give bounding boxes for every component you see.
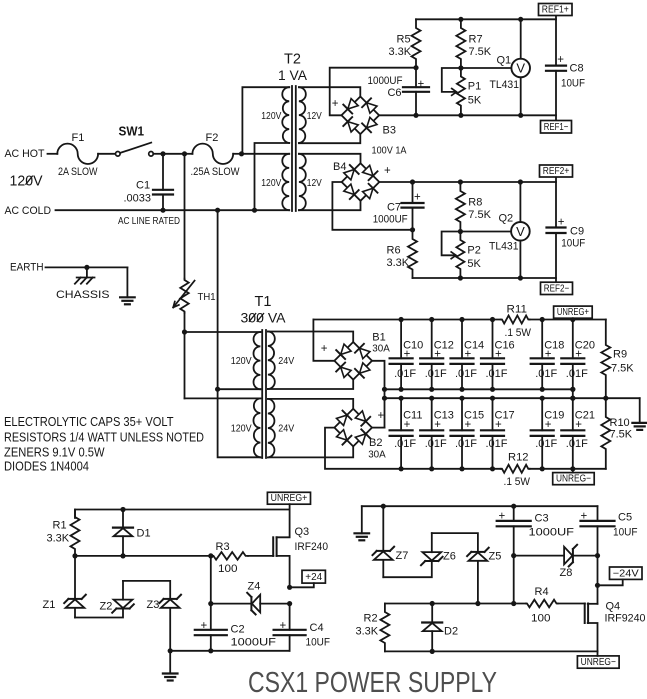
svg-text:UNREG−: UNREG−	[556, 474, 591, 485]
wire T1 upper secondary top to B1	[268, 332, 353, 342]
node junction Z5 bottom	[475, 601, 480, 606]
svg-text:+: +	[581, 510, 588, 522]
node junction C17 top	[490, 396, 495, 401]
wire B4 minus loop to C7 bottom	[332, 182, 412, 230]
node junction D1 top	[120, 507, 125, 512]
node junction C7 top	[410, 179, 415, 184]
svg-text:7.5K: 7.5K	[468, 209, 491, 221]
zener Z6	[425, 560, 438, 562]
svg-text:.01F: .01F	[455, 368, 477, 380]
chassis ground symbol	[86, 267, 88, 277]
svg-text:120V: 120V	[231, 355, 252, 367]
potentiometer P1	[457, 68, 465, 115]
bridge rectifier B3	[342, 97, 380, 135]
svg-text:120V: 120V	[261, 177, 281, 189]
wire B2 minus down to UNREG- rail	[325, 428, 501, 469]
svg-text:+: +	[434, 348, 441, 360]
node junction C21 top	[570, 396, 575, 401]
capacitor C19	[541, 398, 543, 430]
svg-text:Q4: Q4	[606, 601, 621, 613]
node junction R8 top	[458, 179, 463, 184]
svg-text:+: +	[384, 165, 391, 177]
svg-text:REF2−: REF2−	[544, 284, 570, 295]
node junction C10 top	[399, 317, 404, 322]
svg-text:.01F: .01F	[425, 438, 447, 450]
node junction cold on AC COLD	[215, 208, 220, 213]
capacitor C17	[492, 398, 494, 430]
transformer T2 core	[291, 86, 293, 211]
svg-text:P2: P2	[467, 244, 480, 256]
svg-text:+: +	[434, 419, 441, 431]
svg-text:5K: 5K	[468, 95, 482, 107]
svg-text:+: +	[465, 419, 472, 431]
wire T2 lower secondary bottom to B4	[299, 201, 361, 210]
node junction C12 top	[429, 317, 434, 322]
svg-text:.01F: .01F	[535, 368, 557, 380]
node junction C2 bottom	[208, 648, 213, 653]
fuse F2	[185, 153, 193, 155]
transformer T1 core	[261, 330, 263, 458]
wire B1 minus down to 0V rails	[372, 361, 385, 428]
wire B4 plus to REF2 top rail	[379, 181, 556, 183]
svg-text:R11: R11	[507, 304, 528, 316]
capacitor C5	[597, 506, 599, 521]
svg-text:+: +	[404, 348, 411, 360]
svg-text:R7: R7	[469, 34, 483, 46]
node junction R1/Z1/rail	[72, 553, 77, 558]
wire R4 to Q4 gate	[558, 603, 585, 605]
wire T1 lower secondary top to B2	[268, 399, 353, 408]
node junction Z4 right	[287, 601, 292, 606]
svg-text:CHASSIS: CHASSIS	[56, 289, 110, 301]
svg-text:C1: C1	[136, 179, 150, 191]
svg-text:3.3K: 3.3K	[47, 533, 70, 545]
svg-text:+: +	[418, 78, 425, 90]
svg-text:+: +	[557, 54, 564, 66]
wire Z4 branch	[210, 556, 212, 604]
earth ground symbol	[126, 267, 128, 297]
wire 0V lower mid rail	[385, 397, 640, 399]
fuse F1	[57, 144, 98, 164]
wire Z2 anode to Z3 cathode	[123, 581, 170, 599]
svg-text:R5: R5	[397, 34, 411, 46]
svg-text:−24V: −24V	[613, 568, 639, 579]
node junction -24V tap	[595, 583, 600, 588]
svg-text:30A: 30A	[372, 344, 390, 355]
svg-text:100: 100	[218, 563, 238, 575]
wire REF2 bottom rail	[413, 277, 557, 279]
svg-text:C9: C9	[570, 225, 584, 237]
svg-text:Z1: Z1	[43, 599, 56, 611]
svg-text:REF1+: REF1+	[542, 5, 569, 16]
zener Z3	[164, 598, 177, 600]
node junction C15 bottom	[459, 466, 464, 471]
transformer T1 primary lower 120V winding	[253, 398, 260, 457]
wire Z1 anode to Z2 cathode	[75, 609, 123, 618]
svg-text:IRF9240: IRF9240	[605, 612, 646, 624]
zener Z5	[471, 551, 484, 553]
node junction Q2 cathode	[518, 179, 523, 184]
svg-text:.1 5W: .1 5W	[505, 327, 532, 339]
node junction TH1/T1 upper primary	[182, 329, 187, 334]
svg-text:12V: 12V	[307, 110, 322, 122]
svg-text:R12: R12	[508, 452, 529, 464]
node junction Z8 left	[511, 553, 516, 558]
svg-text:UNREG+: UNREG+	[557, 307, 589, 318]
node junction D2 top	[430, 601, 435, 606]
svg-text:10UF: 10UF	[561, 77, 585, 89]
resistor R10	[601, 398, 610, 469]
capacitor C3	[513, 506, 515, 521]
svg-text:TL431: TL431	[490, 79, 520, 91]
svg-text:.1 5W: .1 5W	[504, 476, 531, 488]
wire T1 upper primary top	[185, 331, 261, 333]
node UNREG- box bottom-right	[577, 656, 619, 668]
node junction C14 top	[459, 317, 464, 322]
svg-text:AC COLD: AC COLD	[5, 205, 52, 217]
node junction T1 upper primary bottom	[215, 387, 220, 392]
transistor Q4 IRF9240	[584, 604, 586, 624]
svg-text:7.5K: 7.5K	[610, 429, 633, 441]
svg-text:+: +	[545, 419, 552, 431]
svg-text:Q2: Q2	[499, 213, 514, 225]
svg-text:120V: 120V	[231, 423, 252, 435]
svg-text:+: +	[201, 620, 208, 632]
svg-text:R2: R2	[364, 612, 378, 624]
svg-text:C5: C5	[618, 512, 632, 524]
svg-text:C8: C8	[570, 63, 584, 75]
svg-text:+: +	[280, 620, 287, 632]
svg-text:C2: C2	[231, 624, 245, 636]
wire C3 down to R4 line	[513, 556, 515, 604]
svg-text:3.3K: 3.3K	[387, 257, 410, 269]
svg-text:P1: P1	[468, 81, 481, 93]
node junction 0V rail left upper	[382, 387, 387, 392]
wire UNREG- bottom rail right segment	[530, 468, 606, 470]
node junction Z4 left	[208, 601, 213, 606]
capacitor C16	[492, 320, 494, 359]
svg-text:+: +	[495, 419, 502, 431]
node junction C15 top	[459, 396, 464, 401]
node junction Q1 cathode	[518, 17, 523, 22]
svg-text:R3: R3	[216, 541, 230, 553]
capacitor C21	[572, 398, 574, 430]
transformer T2 secondary upper 12V winding	[299, 87, 306, 143]
svg-text:TH1: TH1	[198, 291, 216, 303]
wire B1 plus up to UNREG+ rail	[313, 320, 334, 361]
zener Z4	[211, 603, 252, 605]
wire B2 plus to 0V rail	[372, 427, 385, 429]
svg-text:R9: R9	[613, 349, 627, 361]
node REF2+ box	[540, 165, 573, 177]
wire top rail of +24 regulator	[75, 510, 290, 519]
shunt regulator IC Q2 TL431	[511, 222, 530, 241]
svg-text:C4: C4	[310, 622, 324, 634]
svg-text:+: +	[558, 217, 565, 229]
resistor R8	[456, 182, 465, 232]
svg-text:.01F: .01F	[394, 438, 416, 450]
svg-text:120V: 120V	[10, 174, 43, 190]
resistor R2	[380, 604, 389, 652]
thermistor TH1	[180, 279, 188, 313]
node junction C3 branch bottom	[511, 601, 516, 606]
svg-text:REF1−: REF1−	[544, 122, 569, 133]
capacitor C18	[541, 320, 543, 359]
wire T2 upper secondary top to B3	[299, 87, 360, 96]
svg-text:R10: R10	[610, 417, 630, 429]
svg-text:T2: T2	[284, 52, 301, 68]
svg-text:.0033: .0033	[124, 192, 152, 204]
svg-text:EARTH: EARTH	[10, 262, 44, 274]
svg-text:+: +	[404, 419, 411, 431]
svg-text:UNREG−: UNREG−	[581, 657, 616, 668]
svg-text:DIODES 1N4004: DIODES 1N4004	[4, 460, 89, 474]
svg-text:AC LINE RATED: AC LINE RATED	[118, 216, 180, 227]
node junction D2 bottom	[430, 649, 435, 654]
node REF2- box	[541, 282, 573, 294]
node junction C19 bottom	[540, 466, 545, 471]
svg-text:120V: 120V	[261, 110, 281, 122]
svg-text:30A: 30A	[368, 449, 386, 460]
svg-text:1000UF: 1000UF	[373, 214, 408, 226]
svg-text:REF2+: REF2+	[543, 166, 570, 177]
wire ref pin to TL431 Q1	[461, 67, 512, 69]
wire T1 upper secondary bottom to B1	[268, 380, 353, 389]
wire earth	[46, 266, 128, 268]
transformer T2 secondary lower 12V winding	[299, 154, 306, 210]
svg-text:3.3K: 3.3K	[389, 46, 412, 58]
svg-text:+: +	[545, 348, 552, 360]
node junction +24 tap	[287, 585, 292, 590]
node junction C17 bottom	[490, 466, 495, 471]
svg-text:B4: B4	[333, 161, 346, 173]
wire T1 lower primary top	[185, 397, 261, 399]
svg-text:IRF240: IRF240	[295, 541, 329, 553]
wire top rail of -24 regulator	[362, 505, 598, 507]
zener Z8	[514, 555, 565, 557]
svg-text:.25A SLOW: .25A SLOW	[191, 166, 241, 178]
node junction Q1 anode	[518, 113, 523, 118]
svg-text:24V: 24V	[278, 355, 294, 367]
svg-text:Q3: Q3	[295, 526, 310, 538]
capacitor C10	[400, 320, 402, 359]
svg-text:1 VA: 1 VA	[278, 67, 308, 83]
svg-text:V: V	[516, 224, 525, 239]
node +24 output box	[302, 570, 325, 583]
svg-text:1000UF: 1000UF	[529, 526, 575, 538]
zener Z2	[116, 608, 129, 610]
resistor R7	[456, 19, 465, 68]
transformer T2 primary upper 120V winding	[282, 87, 289, 143]
wire AC HOT lead	[48, 153, 58, 155]
node junction C14 bottom	[459, 387, 464, 392]
node junction R7/P1/wiper	[458, 65, 463, 70]
node junction C13 top	[429, 396, 434, 401]
node junction SW1/C1	[160, 151, 165, 156]
svg-text:.01F: .01F	[566, 368, 588, 380]
ground bottom-right top	[361, 506, 363, 533]
capacitor C9	[555, 177, 557, 228]
svg-text:10UF: 10UF	[613, 526, 638, 538]
svg-text:100V 1A: 100V 1A	[372, 145, 407, 156]
wire UNREG+ feed	[289, 504, 291, 509]
transformer T1 secondary lower 24V winding	[268, 399, 275, 458]
wire -24V tap	[598, 579, 623, 585]
node junction 0V rail link bottom	[570, 396, 575, 401]
node junction ground tap	[168, 648, 173, 653]
svg-text:.01F: .01F	[486, 368, 508, 380]
node junction TH1 branch	[182, 151, 187, 156]
svg-text:10UF: 10UF	[306, 636, 331, 648]
svg-text:D2: D2	[444, 626, 458, 638]
node REF1+ box	[539, 4, 573, 16]
wire +24 tap	[290, 583, 314, 587]
transformer T1 primary upper 120V winding	[254, 332, 261, 389]
wire T1 lower secondary bottom to B2	[268, 446, 353, 457]
node junction C6 bottom	[413, 113, 418, 118]
resistor R4	[526, 600, 558, 608]
wire R4 line left segment	[385, 603, 526, 605]
wire regulator ground rail	[170, 650, 289, 652]
svg-text:ZENERS 9.1V 0.5W: ZENERS 9.1V 0.5W	[4, 446, 105, 460]
node junction chassis tap	[84, 265, 89, 270]
svg-text:R6: R6	[387, 245, 401, 257]
node junction C1 bottom on AC COLD	[160, 208, 165, 213]
resistor R3	[211, 552, 248, 560]
wire ref pin to TL431 Q2	[460, 231, 511, 233]
node junction F2 output	[239, 151, 244, 156]
svg-text:SW1: SW1	[119, 124, 145, 139]
node junction C11 bottom	[399, 466, 404, 471]
wire T2 upper secondary bottom to B3	[299, 134, 360, 143]
svg-text:C3: C3	[535, 513, 549, 525]
node junction R3 left / Z4 branch	[208, 553, 213, 558]
resistor R11	[501, 316, 530, 324]
wire hot feed down through TH1	[184, 154, 186, 279]
svg-text:AC HOT: AC HOT	[5, 148, 45, 160]
node junction R7 top	[458, 17, 463, 22]
zener Z1	[74, 556, 76, 599]
node junction C7 bottom / B4 minus	[410, 227, 415, 232]
node junction P1 bottom	[458, 113, 463, 118]
node junction C20 bottom	[570, 387, 575, 392]
svg-text:+: +	[378, 410, 385, 422]
svg-text:.01F: .01F	[425, 368, 447, 380]
svg-text:+: +	[575, 348, 582, 360]
bridge rectifier B1	[334, 342, 372, 380]
node junction 0V rail link top	[570, 387, 575, 392]
svg-text:C7: C7	[387, 201, 401, 213]
svg-text:.01F: .01F	[535, 438, 557, 450]
wire TH1 to T1 primaries	[184, 313, 186, 332]
wire UNREG+ top rail left segment	[313, 319, 500, 321]
node junction C16 bottom	[490, 387, 495, 392]
transformer T2 primary lower 120V winding	[282, 154, 289, 210]
svg-text:B3: B3	[383, 125, 396, 137]
wire Z7 anode to Z6 cathode	[383, 561, 432, 577]
capacitor C7	[412, 182, 414, 203]
svg-text:CSX1 POWER SUPPLY: CSX1 POWER SUPPLY	[248, 667, 497, 699]
svg-text:B1: B1	[372, 332, 385, 344]
wire gate bias rail	[75, 555, 213, 557]
svg-text:V: V	[516, 61, 525, 76]
ground mid-right	[639, 398, 641, 423]
diode D1	[122, 510, 124, 528]
node junction C12 bottom	[429, 387, 434, 392]
resistor R6	[408, 230, 417, 278]
resistor R9	[601, 320, 610, 399]
wire C1 node to TH1 node	[163, 153, 185, 155]
svg-text:24V: 24V	[278, 423, 294, 435]
resistor R1	[71, 510, 80, 556]
capacitor C11	[400, 398, 402, 430]
node junction P2 bottom	[458, 275, 463, 280]
wire B3 plus output	[330, 68, 416, 116]
svg-text:3.3K: 3.3K	[356, 626, 379, 638]
svg-text:Z7: Z7	[396, 550, 409, 562]
svg-text:.01F: .01F	[566, 438, 588, 450]
node -24V output box	[610, 567, 643, 579]
svg-text:R8: R8	[468, 197, 482, 209]
svg-text:Z6: Z6	[443, 551, 456, 563]
wire B3 minus to REF1 bottom rail	[379, 114, 556, 116]
svg-text:7.5K: 7.5K	[611, 362, 634, 374]
svg-text:.01F: .01F	[455, 438, 477, 450]
svg-text:C6: C6	[387, 87, 401, 99]
svg-text:R1: R1	[53, 520, 67, 532]
svg-text:10UF: 10UF	[561, 237, 585, 249]
svg-text:Z2: Z2	[100, 600, 113, 612]
capacitor C1	[162, 154, 164, 190]
svg-text:+: +	[321, 343, 328, 355]
node REF1- box	[541, 121, 572, 134]
svg-text:5K: 5K	[467, 258, 481, 270]
wire UNREG- stub	[597, 651, 599, 656]
svg-text:UNREG+: UNREG+	[271, 493, 308, 504]
capacitor C14	[461, 320, 463, 359]
transformer T1 secondary upper 24V winding	[268, 332, 275, 390]
node junction C19 top	[540, 396, 545, 401]
svg-text:12V: 12V	[307, 177, 322, 189]
wire SW1 to C1 node	[153, 153, 163, 155]
svg-text:Z4: Z4	[248, 581, 261, 593]
slash in 0 of 120V	[26, 176, 32, 184]
bridge rectifier B4	[342, 163, 380, 201]
svg-text:Z8: Z8	[560, 567, 573, 579]
svg-text:F2: F2	[206, 132, 219, 144]
wire T2 upper primary bottom to cold	[255, 143, 290, 210]
wire REF1 top rail	[416, 18, 556, 20]
wire AC COLD line	[56, 209, 290, 211]
ground bottom-left	[169, 651, 171, 674]
node junction Z7 top	[381, 504, 386, 509]
node junction C11 top	[399, 396, 404, 401]
wire 0V upper mid rail	[385, 388, 573, 390]
svg-text:Z5: Z5	[489, 551, 502, 563]
node junction C18 top	[540, 317, 545, 322]
svg-text:+: +	[575, 419, 582, 431]
node UNREG- box mid	[553, 473, 595, 485]
svg-text:RESISTORS 1/4 WATT UNLESS NOTE: RESISTORS 1/4 WATT UNLESS NOTED	[4, 430, 204, 444]
node junction C3 top	[511, 504, 516, 509]
svg-text:+: +	[499, 510, 506, 522]
svg-text:300 VA: 300 VA	[241, 310, 287, 326]
zener Z7	[382, 506, 384, 551]
capacitor C6	[415, 68, 417, 88]
capacitor C12	[431, 320, 433, 359]
svg-text:+24: +24	[305, 572, 322, 583]
wire T2 upper primary top to hot	[242, 87, 289, 154]
